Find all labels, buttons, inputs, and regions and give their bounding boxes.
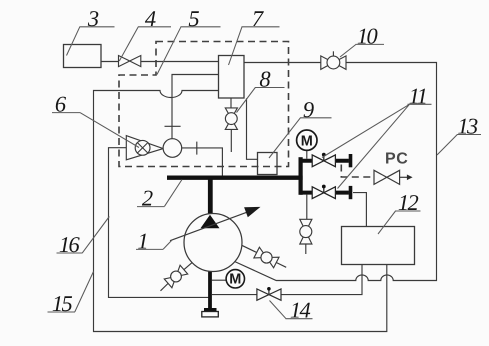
svg-text:6: 6 bbox=[55, 92, 67, 117]
svg-text:PC: PC bbox=[385, 151, 408, 168]
svg-text:12: 12 bbox=[398, 190, 419, 215]
svg-text:5: 5 bbox=[188, 6, 199, 31]
svg-text:3: 3 bbox=[87, 6, 99, 31]
svg-text:13: 13 bbox=[457, 114, 478, 139]
svg-text:14: 14 bbox=[290, 298, 311, 323]
svg-text:7: 7 bbox=[252, 6, 265, 31]
svg-text:2: 2 bbox=[142, 186, 153, 211]
svg-text:9: 9 bbox=[303, 97, 314, 122]
svg-text:8: 8 bbox=[259, 67, 270, 92]
svg-text:10: 10 bbox=[357, 23, 378, 48]
svg-text:M: M bbox=[301, 133, 313, 149]
svg-text:16: 16 bbox=[59, 232, 81, 257]
svg-text:4: 4 bbox=[145, 6, 156, 31]
svg-text:15: 15 bbox=[52, 291, 73, 316]
svg-text:11: 11 bbox=[409, 83, 427, 108]
svg-text:M: M bbox=[229, 272, 241, 288]
svg-text:1: 1 bbox=[137, 228, 148, 253]
